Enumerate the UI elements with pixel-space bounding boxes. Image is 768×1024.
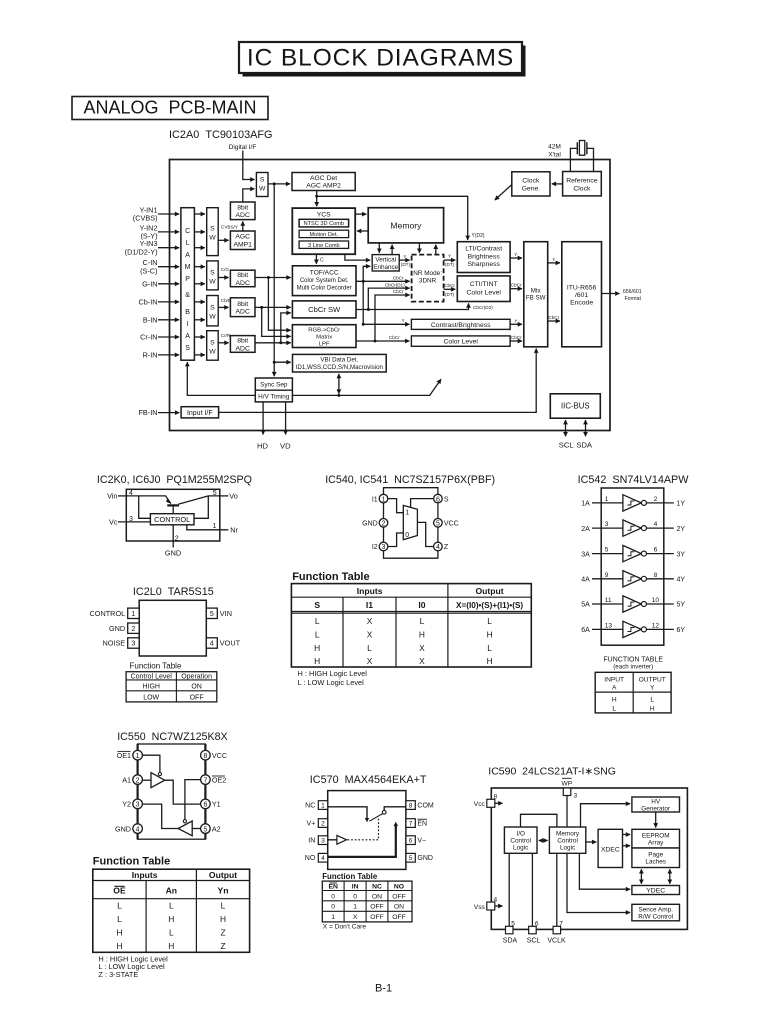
svg-text:ADC: ADC <box>236 345 250 352</box>
pin 3 circle <box>133 799 143 809</box>
switch lever <box>369 814 383 822</box>
wire crystal right leg <box>587 148 594 171</box>
svg-text:Function Table: Function Table <box>130 661 182 670</box>
block YCS <box>292 208 355 254</box>
wire base to CONTROL <box>172 507 174 514</box>
svg-text:Laches: Laches <box>645 859 666 866</box>
svg-text:Color System Det.: Color System Det. <box>300 278 349 284</box>
svg-text:NR Mode:: NR Mode: <box>413 270 442 277</box>
wire VD <box>285 402 287 435</box>
svg-text:L: L <box>367 643 372 653</box>
svg-text:Format: Format <box>625 296 642 302</box>
svg-text:42M: 42M <box>548 144 561 151</box>
block Memory <box>368 208 443 243</box>
IC2L0 package box <box>139 600 206 656</box>
inverter U542A <box>592 495 674 511</box>
wire SCL (double arrow) <box>565 420 567 436</box>
svg-text:SDA: SDA <box>576 440 593 449</box>
pin 6 tab <box>406 836 415 845</box>
svg-text:X: X <box>367 616 373 626</box>
svg-text:SCL: SCL <box>559 440 574 449</box>
svg-text:C/G: C/G <box>221 267 230 272</box>
svg-text:Array: Array <box>648 840 664 847</box>
buffer EN driver <box>337 835 347 844</box>
table IC542 function table <box>595 672 671 713</box>
svg-text:IC540, IC541 NC7SZ157P6X(PBF): IC540, IC541 NC7SZ157P6X(PBF) <box>325 474 495 486</box>
svg-text:VCLK: VCLK <box>547 937 566 944</box>
pin 3 circle <box>379 542 388 551</box>
svg-text:3Y: 3Y <box>677 551 686 558</box>
svg-text:CbCr SW: CbCr SW <box>308 305 341 314</box>
svg-text:IC2L0 TAR5S15: IC2L0 TAR5S15 <box>133 586 214 598</box>
svg-text:H: H <box>487 630 493 640</box>
switch SW C/G <box>207 261 219 290</box>
wire WP to Memory Control <box>566 796 568 828</box>
svg-text:GND: GND <box>165 549 181 558</box>
svg-text:8: 8 <box>409 802 413 809</box>
svg-text:CVBS/Y: CVBS/Y <box>221 224 238 229</box>
svg-text:3 Line Comb: 3 Line Comb <box>308 243 340 249</box>
inverter U542E <box>592 596 674 612</box>
svg-text:IC542 SN74LV14APW: IC542 SN74LV14APW <box>578 474 690 486</box>
wire Mtx to ITU (Y) <box>548 262 560 264</box>
svg-text:3: 3 <box>321 837 325 844</box>
svg-text:4: 4 <box>654 521 658 528</box>
svg-text:11: 11 <box>605 597 612 604</box>
svg-text:2: 2 <box>131 624 135 633</box>
pin 5 circle <box>201 824 211 834</box>
wire branch to RGB input G <box>268 278 290 331</box>
svg-text:5: 5 <box>409 855 413 862</box>
wire OE2 to buffer2 bubble <box>185 780 201 820</box>
wire ADC4 to RGB input R <box>255 342 291 344</box>
svg-text:(DT): (DT) <box>445 292 455 297</box>
svg-text:8: 8 <box>654 572 658 579</box>
svg-text:L: L <box>315 630 320 640</box>
wire Vertical Enhance to Memory <box>391 245 393 255</box>
svg-text:L: L <box>487 616 492 626</box>
svg-text:L: L <box>650 697 654 704</box>
svg-text:4: 4 <box>210 639 214 648</box>
title box IC BLOCK DIAGRAMS <box>239 42 522 73</box>
svg-text:VD: VD <box>280 441 291 450</box>
svg-text:SDA: SDA <box>503 937 518 944</box>
svg-text:ITU-R656: ITU-R656 <box>567 285 597 292</box>
svg-text:1: 1 <box>382 496 386 503</box>
svg-text:Motion Det.: Motion Det. <box>309 232 338 238</box>
wire buffer2 out to Y2 <box>142 804 178 828</box>
wire collector lead <box>178 496 220 504</box>
svg-text:Y: Y <box>514 318 517 323</box>
svg-text:(S-C): (S-C) <box>140 266 157 275</box>
wire to VBI Data Det <box>274 361 291 363</box>
pin 1 tab <box>318 801 327 810</box>
wire CONTROL to collector node <box>194 496 208 518</box>
svg-text:8bit: 8bit <box>237 338 248 345</box>
wire VCLK up to Memory Control <box>556 853 558 927</box>
block 3 Line Comb <box>299 241 349 248</box>
pin 6 circle <box>201 799 211 809</box>
inverter U542D <box>592 571 674 587</box>
block Page Laches <box>632 848 680 868</box>
svg-text:L : LOW Logic Level: L : LOW Logic Level <box>298 678 365 687</box>
svg-text:2Y: 2Y <box>677 526 686 533</box>
svg-text:1Y: 1Y <box>677 501 686 508</box>
svg-text:G-IN: G-IN <box>142 279 157 288</box>
pin 5 box <box>206 608 217 618</box>
svg-text:9: 9 <box>605 572 609 579</box>
svg-text:C: C <box>320 258 324 264</box>
wire SW to ADC3 <box>218 306 228 308</box>
svg-text:OFF: OFF <box>190 694 204 701</box>
adc 8bit ADC 1 <box>230 202 255 220</box>
svg-text:AMP1: AMP1 <box>233 242 252 249</box>
svg-text:INPUT: INPUT <box>604 677 624 684</box>
svg-text:7: 7 <box>559 920 563 927</box>
svg-text:LPF: LPF <box>319 341 330 347</box>
block Mtx FB SW <box>524 242 548 347</box>
wire branch RGB to NR (CbCr) <box>375 295 410 341</box>
inverter U542C <box>592 545 674 561</box>
svg-text:L: L <box>487 643 492 653</box>
svg-text:Vss: Vss <box>474 904 486 911</box>
svg-text:Z: Z <box>220 941 225 951</box>
wire AGC AMP1 to ADC1 <box>242 221 244 231</box>
svg-text:2: 2 <box>136 777 140 784</box>
wire Page Laches to YDEC (double arrow) 2 <box>669 869 671 884</box>
block CbCr SW <box>292 301 356 318</box>
svg-text:Z : 3-STATE: Z : 3-STATE <box>98 970 138 979</box>
svg-text:S: S <box>260 177 265 184</box>
svg-text:H/V Timing: H/V Timing <box>258 393 290 400</box>
pin 7 circle <box>201 775 211 785</box>
svg-text:5: 5 <box>203 826 207 833</box>
node junction Y(D2) <box>315 195 318 198</box>
svg-text:GND: GND <box>362 521 378 528</box>
node junction <box>267 276 270 279</box>
svg-text:Memory: Memory <box>390 220 422 230</box>
block CTI/TINT Color Level <box>457 276 510 302</box>
svg-text:Y: Y <box>650 684 655 691</box>
svg-text:(DT): (DT) <box>401 262 411 267</box>
wire SW to ADC4 <box>218 342 228 344</box>
svg-text:YCS: YCS <box>317 212 331 219</box>
wire Vin internal <box>126 496 150 518</box>
svg-text:Vcc: Vcc <box>474 801 486 808</box>
svg-text:W: W <box>259 186 266 193</box>
svg-text:L: L <box>315 616 320 626</box>
block HV Generator <box>632 797 680 812</box>
svg-text:Color Level: Color Level <box>444 339 479 346</box>
pin SDA square <box>506 926 514 934</box>
svg-text:L: L <box>117 914 122 924</box>
svg-text:Z: Z <box>220 927 225 937</box>
block AGC AMP1 <box>230 231 255 250</box>
wire SCL up to I/O Control <box>531 853 533 927</box>
wire VBI to H/V line (double arrow) <box>338 374 340 394</box>
pin 5 circle <box>434 519 443 528</box>
wire Memory to YCS <box>357 230 368 232</box>
svg-text:Encode: Encode <box>570 300 593 307</box>
svg-text:5: 5 <box>605 547 609 554</box>
svg-text:I2: I2 <box>372 544 378 551</box>
svg-text:X: X <box>419 656 425 666</box>
title shadow <box>243 46 526 77</box>
svg-text:Vo: Vo <box>229 492 238 501</box>
svg-text:4: 4 <box>321 855 325 862</box>
wire Memory to Vertical Enhance <box>378 243 380 253</box>
svg-text:IN: IN <box>352 883 359 890</box>
pin SCL square <box>529 926 537 934</box>
svg-text:Reference: Reference <box>566 177 598 184</box>
svg-text:AGC: AGC <box>235 234 250 241</box>
wire HV Generator to EEPROM <box>655 812 657 828</box>
wire I/O top loop to Memory Control top <box>521 814 557 827</box>
svg-text:0: 0 <box>331 893 335 900</box>
svg-text:W: W <box>209 314 216 321</box>
wire SW to AGC AMP2 <box>268 183 290 185</box>
svg-text:ADC: ADC <box>236 280 250 287</box>
wire Memory to NR <box>418 243 420 253</box>
svg-text:NO: NO <box>305 855 316 862</box>
wire branch CbCr SW to NR (CbCr(D1)) <box>368 288 409 309</box>
pin 2 box <box>128 623 140 633</box>
pin 8 circle <box>201 750 211 760</box>
svg-text:B: B <box>185 309 190 316</box>
svg-text:ID1,WSS,CCD,S/N,Macrovision: ID1,WSS,CCD,S/N,Macrovision <box>296 364 384 371</box>
switch pivot circle <box>382 810 386 814</box>
wire H/V Timing right with diagonal arrow <box>292 379 441 395</box>
svg-text:Z: Z <box>444 544 449 551</box>
svg-text:CbCr: CbCr <box>548 315 559 320</box>
node junction <box>260 306 263 309</box>
svg-text:3: 3 <box>574 793 578 800</box>
pin 6 circle <box>434 494 443 503</box>
switch SW Cb/B <box>207 296 219 326</box>
wire A1 to buffer <box>142 779 151 781</box>
svg-text:Gene.: Gene. <box>522 185 541 192</box>
wire HD <box>262 402 264 435</box>
wire Y(D2) to LTI top <box>317 196 468 240</box>
block VBI Data Det <box>293 354 387 372</box>
svg-text:Matrix: Matrix <box>316 334 332 340</box>
svg-text:A: A <box>185 333 190 340</box>
svg-text:CbCr: CbCr <box>393 289 404 294</box>
wire NR to CTI <box>444 288 456 290</box>
wire right pins vertical <box>437 503 439 542</box>
block Contrast/Brightness <box>411 319 510 329</box>
svg-text:COM: COM <box>417 802 434 809</box>
svg-text:8bit: 8bit <box>237 204 248 211</box>
table IC2L0 function table <box>126 672 217 702</box>
svg-text:X: X <box>367 656 373 666</box>
svg-text:V+: V+ <box>307 820 316 827</box>
svg-text:Y(D2): Y(D2) <box>472 233 485 239</box>
svg-text:Generator: Generator <box>641 806 671 813</box>
svg-text:Vin: Vin <box>107 491 117 500</box>
svg-text:WP: WP <box>561 781 572 788</box>
svg-text:H : HIGH Logic Level: H : HIGH Logic Level <box>298 669 368 678</box>
wire CTI to Mtx FB SW <box>510 288 522 290</box>
svg-text:AGC AMP2: AGC AMP2 <box>306 183 341 190</box>
svg-text:3DNR: 3DNR <box>419 278 437 285</box>
svg-text:8bit: 8bit <box>237 301 248 308</box>
svg-text:Cb-IN: Cb-IN <box>138 297 157 306</box>
svg-text:7: 7 <box>409 820 413 827</box>
block Reference Clock <box>563 172 602 196</box>
svg-text:Logic: Logic <box>513 845 529 852</box>
svg-text:NC: NC <box>305 802 315 809</box>
svg-text:5: 5 <box>436 521 440 528</box>
svg-text:ANALOG PCB-MAIN: ANALOG PCB-MAIN <box>83 98 256 118</box>
svg-text:1: 1 <box>605 496 609 503</box>
svg-text:HIGH: HIGH <box>142 683 160 690</box>
wire CONTROL to Nr pin 1 <box>187 525 229 530</box>
pin 1 circle <box>379 494 388 503</box>
svg-text:I1: I1 <box>372 496 378 503</box>
wire left pins vertical <box>383 503 385 542</box>
svg-text:CONTROL: CONTROL <box>154 515 190 524</box>
svg-text:Control Level: Control Level <box>131 673 173 680</box>
node junction <box>362 323 365 326</box>
svg-text:Input I/F: Input I/F <box>187 410 213 417</box>
wire branch to RGB input B <box>262 307 291 336</box>
svg-text:4: 4 <box>136 826 140 833</box>
wire branch TOF Y down to Contrast <box>362 281 364 324</box>
svg-text:Digital I/F: Digital I/F <box>229 144 257 151</box>
node junction <box>362 280 365 283</box>
pin 2 circle <box>379 519 388 528</box>
svg-text:Control: Control <box>557 838 578 845</box>
wire Memory Control to Sence Amp <box>567 853 630 912</box>
wire GND pin 2 <box>172 525 174 548</box>
svg-text:VIN: VIN <box>220 609 232 618</box>
wire Input I/F to Mtx FB SW bottom <box>219 349 537 413</box>
svg-text:S: S <box>210 269 215 276</box>
svg-text:8: 8 <box>203 753 207 760</box>
node junction <box>367 308 370 311</box>
svg-text:1: 1 <box>321 802 325 809</box>
svg-text:V−: V− <box>417 837 426 844</box>
svg-text:L: L <box>169 901 174 911</box>
block IIC-BUS <box>550 394 600 418</box>
svg-text:NO: NO <box>394 883 404 890</box>
svg-text:CbCr: CbCr <box>389 335 400 340</box>
svg-text:ON: ON <box>394 904 404 911</box>
svg-text:L: L <box>612 706 616 713</box>
svg-text:1: 1 <box>213 523 217 530</box>
svg-text:6: 6 <box>654 547 658 554</box>
svg-text:6: 6 <box>203 802 207 809</box>
svg-text:CbCr: CbCr <box>511 335 522 340</box>
svg-text:NOISE: NOISE <box>102 639 125 648</box>
svg-text:/601: /601 <box>575 292 588 299</box>
svg-text:Page: Page <box>648 851 663 858</box>
wire Mtx to ITU (CbCr) <box>548 320 560 322</box>
svg-text:Nr: Nr <box>230 525 238 534</box>
svg-text:Y: Y <box>401 318 404 323</box>
block LTI/Contrast Brightness Sharpness <box>457 242 510 273</box>
IC590 outer box <box>491 788 687 929</box>
svg-text:TOF/ACC: TOF/ACC <box>310 270 339 277</box>
wire Color Level to Mtx FB SW <box>510 340 522 342</box>
svg-text:X: X <box>367 630 373 640</box>
svg-text:Contrast/Brightness: Contrast/Brightness <box>431 322 491 329</box>
wire YCS C to TOF <box>315 254 317 264</box>
svg-text:CTI/TINT: CTI/TINT <box>470 281 498 288</box>
svg-text:0: 0 <box>405 532 409 539</box>
svg-text:H: H <box>650 706 655 713</box>
wire A2 to buffer2 <box>192 828 200 830</box>
pin 7 tab <box>406 819 415 828</box>
switch SW Cr/R <box>207 331 219 361</box>
svg-text:Memory: Memory <box>556 831 580 838</box>
svg-text:NTSC 3D Comb: NTSC 3D Comb <box>304 221 344 227</box>
svg-text:ON: ON <box>191 683 202 690</box>
svg-text:4: 4 <box>436 544 440 551</box>
svg-text:I0: I0 <box>418 600 425 610</box>
pin 4 circle <box>434 542 443 551</box>
svg-text:0: 0 <box>353 893 357 900</box>
svg-text:7: 7 <box>203 777 207 784</box>
wire CbCr SW to CTI bottom (CbCr(D2)) <box>356 303 469 309</box>
wire SW to AGC AMP1 <box>218 239 228 241</box>
svg-text:CbCr: CbCr <box>444 283 455 288</box>
svg-text:Control: Control <box>510 838 531 845</box>
svg-text:OE: OE <box>113 886 126 896</box>
svg-text:H: H <box>116 941 122 951</box>
svg-text:CONTROL: CONTROL <box>90 609 126 618</box>
svg-text:I: I <box>187 321 189 328</box>
wire NR to LTI <box>444 259 456 261</box>
wire Page Laches to YDEC (double arrow) 1 <box>640 869 642 884</box>
block Clock Gene <box>512 172 550 196</box>
svg-text:Logic: Logic <box>560 845 576 852</box>
table IC570 function table <box>322 881 412 922</box>
svg-text:Y: Y <box>514 252 517 257</box>
svg-text:VOUT: VOUT <box>220 639 241 648</box>
block Sync Sep / H/V Timing <box>255 378 292 402</box>
svg-text:4A: 4A <box>581 577 590 584</box>
svg-text:B-IN: B-IN <box>143 315 158 324</box>
pin Vcc square <box>487 799 495 807</box>
svg-text:CbCr(D1): CbCr(D1) <box>385 282 405 287</box>
svg-text:0: 0 <box>331 904 335 911</box>
svg-text:2: 2 <box>175 536 179 543</box>
block ITU-R656/601 Encode <box>562 242 602 347</box>
svg-text:Vc: Vc <box>109 517 118 526</box>
wire bottom link pin3 to pin4 <box>384 551 438 559</box>
wire I1 to mux <box>388 499 404 513</box>
svg-text:1: 1 <box>131 609 135 618</box>
adc 8bit ADC 2 <box>230 270 255 287</box>
svg-text:L: L <box>186 240 190 247</box>
svg-text:A: A <box>185 252 190 259</box>
wire Memory Control to YDEC <box>579 853 630 889</box>
IC542 package box <box>601 488 664 645</box>
wire I2 to mux <box>388 533 404 547</box>
svg-text:Clock: Clock <box>522 177 540 184</box>
wire OE1 to buffer bubble <box>142 755 160 772</box>
node junction <box>279 341 282 344</box>
svg-text:IC2K0, IC6J0 PQ1M255M2SPQ: IC2K0, IC6J0 PQ1M255M2SPQ <box>97 474 252 486</box>
svg-text:5: 5 <box>511 920 515 927</box>
wire ITU out 656/601 <box>602 293 620 295</box>
svg-text:GND: GND <box>417 855 433 862</box>
wire YCS to Memory <box>355 213 366 215</box>
buffer U550A <box>151 773 165 788</box>
wire SW to ADC2 <box>218 277 228 279</box>
